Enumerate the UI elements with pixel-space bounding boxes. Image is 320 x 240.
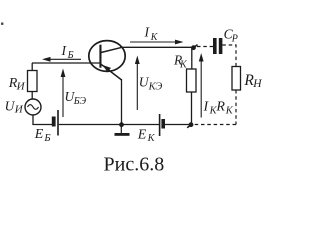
wire R_И to source — [31, 92, 33, 100]
label R_И — [8, 76, 26, 93]
label I_К R_К — [203, 100, 234, 117]
label R_К — [173, 53, 188, 71]
wire bottom rail left — [32, 124, 52, 126]
arrow I_К·R_К voltage — [199, 53, 204, 118]
svg-text:К: К — [150, 32, 159, 43]
wire dashed R_Н bottom lead — [235, 90, 237, 125]
label U_И — [5, 98, 24, 115]
svg-text:Р: Р — [231, 34, 238, 45]
svg-text:БЭ: БЭ — [73, 96, 87, 107]
wire bottom rail right — [165, 124, 191, 126]
AC source sine — [28, 105, 39, 110]
svg-text:И: И — [14, 104, 24, 116]
svg-text:КЭ: КЭ — [148, 81, 163, 92]
svg-text:Н: Н — [252, 78, 262, 90]
wire R_К bottom lead — [191, 92, 193, 125]
svg-text:R: R — [215, 100, 225, 115]
node emitter junction — [119, 122, 124, 127]
label E_Б — [34, 127, 51, 144]
wire dashed bottom rail — [194, 124, 236, 126]
resistor R_К body — [187, 69, 197, 92]
AC source U_И circle — [25, 99, 41, 115]
label R_Н — [243, 72, 262, 90]
wire source to bottom rail — [32, 115, 34, 125]
label E_К — [137, 127, 156, 144]
arrow I_Б — [42, 57, 81, 62]
svg-text:E: E — [34, 127, 44, 142]
label C_Р — [224, 26, 238, 44]
arrow I_К — [130, 40, 184, 45]
ground symbol — [115, 125, 130, 136]
svg-text:И: И — [16, 81, 26, 93]
node bottom right junction — [187, 122, 193, 128]
resistor R_И body — [28, 71, 38, 92]
svg-text:E: E — [137, 127, 147, 142]
wire dashed node to capacitor — [197, 46, 213, 48]
wire R_К top lead — [191, 48, 193, 69]
transistor emitter lead — [101, 64, 122, 80]
svg-text:К: К — [225, 106, 234, 117]
transistor emitter arrow (PNP) — [103, 65, 111, 72]
wire R_I top lead — [31, 63, 33, 71]
label U_БЭ — [65, 89, 87, 107]
label U_КЭ — [139, 75, 163, 93]
battery E_Б long plate — [57, 110, 59, 136]
arrow U_БЭ — [61, 69, 66, 118]
capacitor C_Р left plate — [213, 38, 217, 54]
svg-text:Б: Б — [43, 133, 50, 144]
svg-text:К: К — [147, 133, 156, 144]
battery E_Б short plate — [52, 117, 56, 127]
wire base horizontal — [32, 62, 100, 64]
wire collector rail — [120, 46, 194, 48]
resistor R_Н body — [232, 67, 241, 91]
transistor base bar — [99, 45, 101, 68]
label I_К — [144, 24, 159, 43]
label I_Б — [61, 43, 74, 61]
wire bottom rail middle — [59, 124, 159, 126]
arrow U_КЭ — [135, 56, 140, 111]
transistor Q1 circle — [89, 41, 125, 72]
svg-text:Б: Б — [67, 50, 74, 61]
transistor collector lead — [101, 47, 123, 52]
capacitor C_Р right plate — [219, 38, 223, 54]
battery E_К long plate — [159, 114, 161, 136]
svg-text:Рис.6.8: Рис.6.8 — [104, 154, 165, 176]
battery E_К short plate — [161, 119, 165, 129]
wire dashed capacitor to R_Н corner — [222, 45, 236, 67]
node collector junction — [191, 45, 197, 51]
speck artifact top-left — [1, 23, 3, 25]
wire emitter vertical — [121, 79, 123, 125]
